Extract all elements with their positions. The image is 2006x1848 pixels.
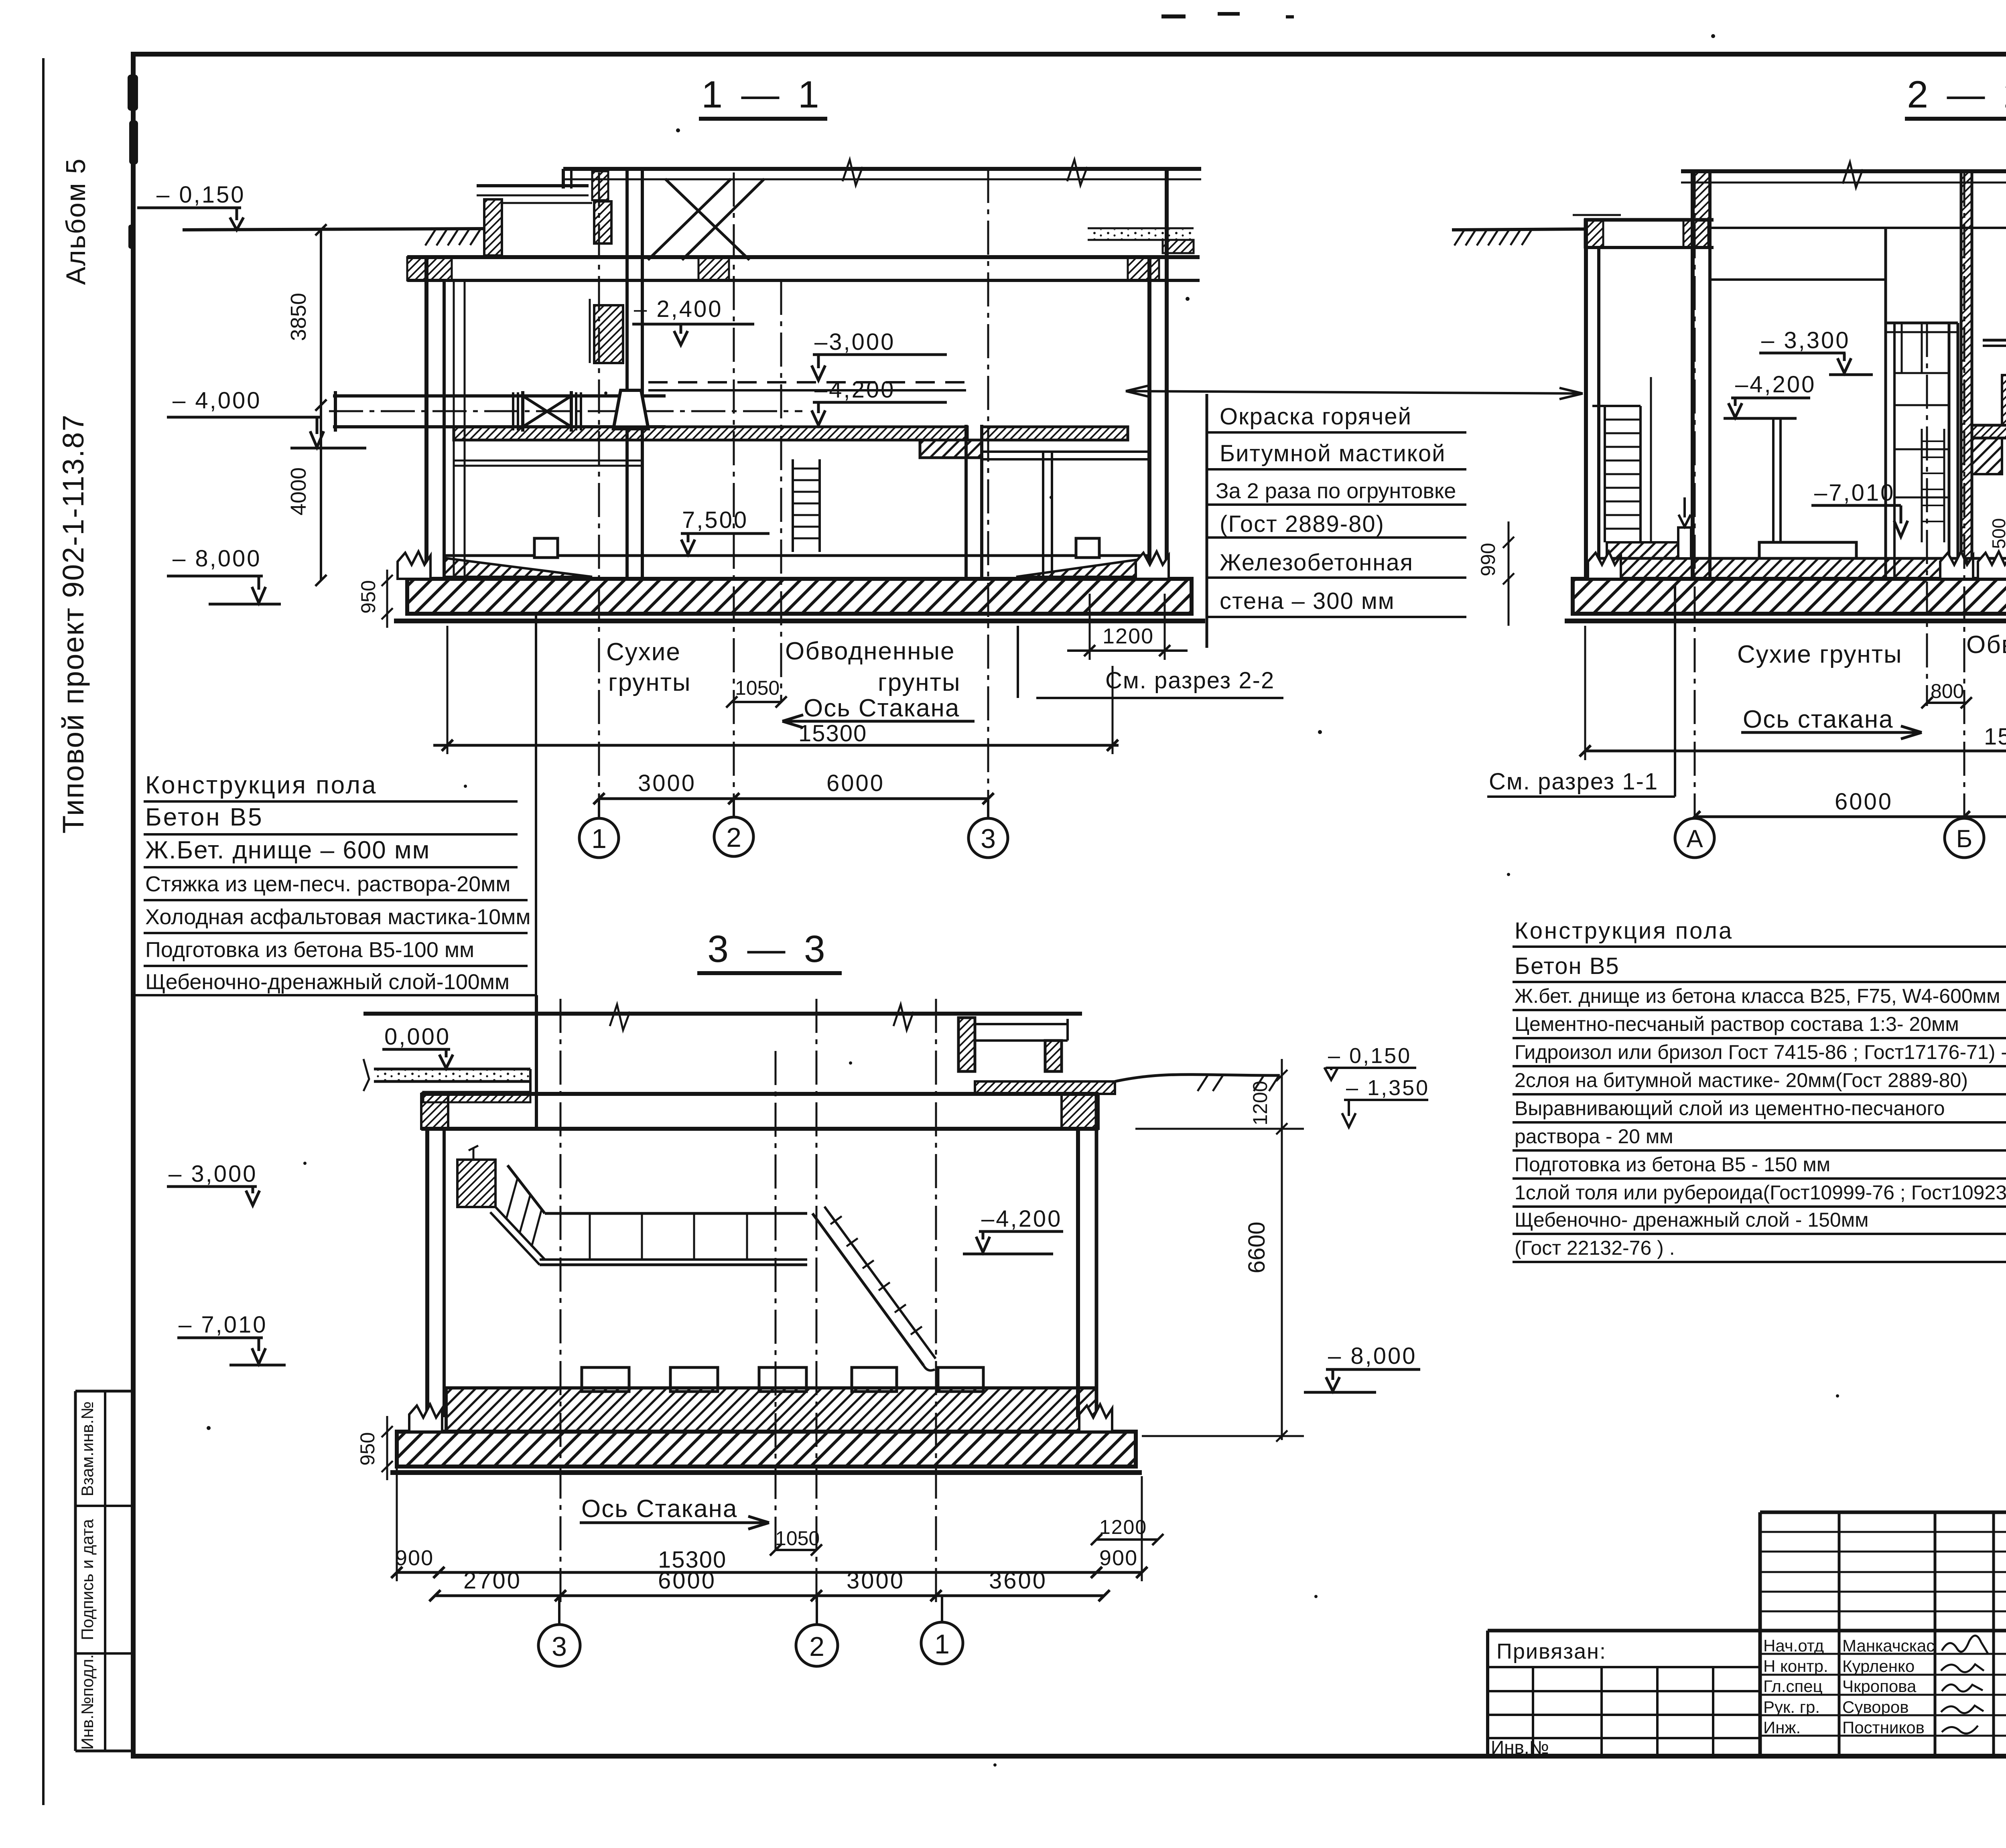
svg-text:См. разрез 1-1: См. разрез 1-1 <box>1489 769 1658 795</box>
left floor spec block border <box>536 995 538 1129</box>
right floor wedge <box>1016 558 1149 577</box>
svg-text:Ж.Бет. днище – 600 мм: Ж.Бет. днище – 600 мм <box>145 836 430 864</box>
svg-text:0,000: 0,000 <box>384 1024 451 1050</box>
annex roof slab <box>1584 218 1714 222</box>
svg-text:Гидроизол или бризол Гост 7415: Гидроизол или бризол Гост 7415-86 ; Гост… <box>1515 1041 2006 1063</box>
svg-text:3 — 3: 3 — 3 <box>707 928 829 970</box>
right roof deck hatch block <box>1163 240 1194 253</box>
svg-text:–4,200: –4,200 <box>814 377 895 403</box>
svg-text:500: 500 <box>1988 518 2006 549</box>
upper ladder hatched <box>457 1160 495 1207</box>
svg-text:– 0,150: – 0,150 <box>156 182 246 208</box>
shaft ladder <box>1921 429 1923 542</box>
svg-text:1 — 1: 1 — 1 <box>701 73 823 116</box>
dim 1200 right vertical <box>1281 1059 1283 1143</box>
svg-text:Подготовка из бетона В5-100 мм: Подготовка из бетона В5-100 мм <box>145 938 474 962</box>
walkway diagonal ties <box>506 1178 542 1247</box>
foundation foot mid-right <box>1978 552 2006 579</box>
pump hall floor slab <box>1972 425 2006 438</box>
grid bubble 2 <box>796 1625 838 1666</box>
svg-text:Привязан:: Привязан: <box>1496 1639 1606 1663</box>
floor plinth 3 <box>759 1367 806 1392</box>
svg-text:Конструкция пола: Конструкция пола <box>1515 918 1733 944</box>
suction bell <box>613 390 648 429</box>
foundation foot right <box>1136 552 1169 579</box>
base prep line <box>394 619 1205 623</box>
svg-text:6000: 6000 <box>1835 789 1893 815</box>
pit floor line <box>1599 557 2006 560</box>
svg-text:2слоя на битумной мастике- 20м: 2слоя на битумной мастике- 20мм(Гост 288… <box>1515 1069 1968 1091</box>
right lower deck lines <box>982 450 1149 453</box>
axis line 2 <box>733 172 735 818</box>
axis line Б <box>1963 172 1965 818</box>
roof hatch pier <box>592 171 608 200</box>
svg-text:Инв.№подл.: Инв.№подл. <box>78 1654 97 1750</box>
svg-text:– 4,000: – 4,000 <box>173 387 262 414</box>
pit floor hatched band <box>1607 558 1967 579</box>
axis line 2 <box>816 999 818 1603</box>
mid floor slab hatched <box>454 427 967 440</box>
svg-text:– 1,350: – 1,350 <box>1346 1076 1429 1100</box>
axis line A <box>1694 172 1696 818</box>
machine plinth on floor <box>1759 542 1856 558</box>
interior column <box>1042 452 1044 579</box>
svg-text:А: А <box>1686 825 1703 853</box>
full width band line <box>1488 1629 2006 1633</box>
parapet wall stub <box>562 169 565 189</box>
entrance handrails <box>975 1023 1068 1025</box>
svg-text:990: 990 <box>1477 543 1499 576</box>
svg-text:Обводненные: Обводненные <box>785 637 955 665</box>
roof slab line <box>1681 169 2006 173</box>
svg-text:1200: 1200 <box>1102 624 1154 648</box>
svg-text:900: 900 <box>1099 1546 1138 1570</box>
hall interior column <box>1772 418 1775 558</box>
svg-text:7,500: 7,500 <box>682 507 748 533</box>
svg-text:1: 1 <box>934 1629 950 1659</box>
annex canopy slab <box>477 184 589 187</box>
svg-text:– 8,000: – 8,000 <box>173 546 262 572</box>
extension line to text block <box>535 614 537 1129</box>
svg-text:Конструкция пола: Конструкция пола <box>145 771 377 799</box>
svg-text:1050: 1050 <box>775 1527 820 1550</box>
shaft left wall <box>1884 228 1887 579</box>
pit floor line <box>444 554 1149 557</box>
upper ladder (hatched) <box>594 305 623 363</box>
svg-text:Битумной мастикой: Битумной мастикой <box>1220 440 1446 467</box>
right main wall <box>1147 257 1151 579</box>
entrance box right pier <box>1045 1041 1062 1071</box>
left floor wedge <box>444 558 592 577</box>
svg-text:1: 1 <box>591 824 607 854</box>
annex roof hatch block left <box>1585 220 1603 247</box>
svg-text:раствора - 20 мм: раствора - 20 мм <box>1515 1125 1673 1148</box>
dim 950 vertical <box>386 570 388 628</box>
pit floor slab hatched <box>446 1388 1096 1432</box>
grid bubble 2 <box>714 817 753 856</box>
privyazan table frame <box>1486 1631 1489 1756</box>
entrance floor band <box>975 1081 1115 1094</box>
hall ceiling line <box>1710 227 2006 229</box>
pipe centerline <box>329 410 802 412</box>
svg-text:2: 2 <box>809 1631 824 1662</box>
svg-text:Инж.: Инж. <box>1763 1718 1801 1737</box>
annex canopy line <box>1573 214 1621 216</box>
right wall <box>1076 1129 1080 1417</box>
svg-text:См. разрез 2-2: См. разрез 2-2 <box>1105 667 1275 694</box>
glass axis line <box>780 281 782 702</box>
svg-text:Стяжка из цем-песч. раствора-2: Стяжка из цем-песч. раствора-20мм <box>145 872 510 896</box>
superstructure interior stair braces <box>648 179 731 260</box>
svg-text:– 8,000: – 8,000 <box>1328 1343 1417 1369</box>
ground line left <box>1452 229 1584 230</box>
signature scribble 4 <box>1941 1706 1984 1713</box>
svg-text:Постников: Постников <box>1842 1718 1925 1737</box>
foundation foot left <box>1588 552 1621 579</box>
walkway diagonal deck <box>495 1207 545 1260</box>
right roof deck with speckle <box>1088 227 1194 229</box>
svg-text:2 — 2: 2 — 2 <box>1907 73 2006 116</box>
svg-text:Бетон В5: Бетон В5 <box>1515 953 1620 979</box>
svg-text:– 0,150: – 0,150 <box>1328 1044 1411 1068</box>
pipe valve <box>521 391 524 432</box>
svg-text:– 3,300: – 3,300 <box>1761 327 1850 353</box>
svg-text:15300: 15300 <box>798 720 867 747</box>
see section 2-2 note <box>1017 626 1019 698</box>
svg-text:Инв.№: Инв.№ <box>1491 1737 1549 1758</box>
walkway deck <box>540 1258 807 1261</box>
glass axis line <box>775 1051 777 1552</box>
grid bubble 3 <box>538 1625 580 1666</box>
svg-text:900: 900 <box>395 1546 434 1570</box>
small post with arrow left <box>1678 527 1691 558</box>
outer left trim line <box>42 58 45 1805</box>
svg-text:Ось стакана: Ось стакана <box>1743 706 1894 733</box>
dim 6600 right vertical <box>1281 1143 1283 1440</box>
svg-text:Сухие: Сухие <box>606 638 681 666</box>
annex right pier (hatched) <box>594 201 611 243</box>
wall on axis A <box>1691 171 1695 579</box>
dim 2700 6000 3000 3600 <box>435 1594 1104 1597</box>
platform edge dashed <box>648 381 966 383</box>
cover slab hatch block mid <box>698 257 729 280</box>
svg-text:1050: 1050 <box>735 677 780 699</box>
svg-text:Щебеночно- дренажный слой - 15: Щебеночно- дренажный слой - 150мм <box>1515 1209 1868 1231</box>
dim 900 15300 900 <box>397 1571 1142 1574</box>
glass axis line <box>1926 323 1928 706</box>
svg-text:800: 800 <box>1931 680 1964 702</box>
left wall <box>425 1129 429 1417</box>
sidebar stamp table <box>75 1391 133 1751</box>
grid bubble Б <box>1945 818 1984 858</box>
ground line right <box>1115 1075 1280 1081</box>
svg-text:(Гост 2889-80): (Гост 2889-80) <box>1220 511 1385 537</box>
monorail beam <box>1983 339 2006 342</box>
signature scribble 2 <box>1941 1664 1984 1672</box>
svg-text:Суворов: Суворов <box>1842 1698 1909 1716</box>
signature table frame <box>1758 1512 1762 1756</box>
foundation slab <box>407 579 1192 614</box>
deck hatch band below <box>423 1092 530 1102</box>
svg-text:стена – 300 мм: стена – 300 мм <box>1220 588 1395 614</box>
svg-text:грунты: грунты <box>878 669 961 696</box>
interior wall axis2 <box>625 169 629 579</box>
svg-text:3000: 3000 <box>847 1568 905 1594</box>
center note block border <box>1206 394 1208 648</box>
svg-text:Цементно-песчаный раствор сост: Цементно-песчаный раствор состава 1:3- 2… <box>1515 1013 1959 1035</box>
cover slab hatch block right <box>1128 257 1159 280</box>
axis line 1 <box>935 999 937 1603</box>
shaft frame grid <box>1894 323 1949 497</box>
ground hatch ticks left <box>1454 229 1532 245</box>
floor niche left <box>534 538 558 558</box>
axis line 3 <box>987 169 989 818</box>
foundation foot mid-left <box>1940 552 1973 579</box>
roof slab line <box>363 1012 1082 1016</box>
svg-text:(Гост 22132-76 ) .: (Гост 22132-76 ) . <box>1515 1237 1675 1259</box>
svg-text:За 2 раза по огрунтовке: За 2 раза по огрунтовке <box>1216 479 1456 503</box>
grid bubble 3 <box>968 818 1008 858</box>
svg-text:1200: 1200 <box>1249 1081 1271 1125</box>
svg-text:–4,200: –4,200 <box>1735 371 1816 398</box>
signature scribble 3 <box>1942 1684 1983 1692</box>
entrance box left pier <box>958 1018 975 1071</box>
svg-text:Нач.отд: Нач.отд <box>1763 1636 1824 1655</box>
roof break mark <box>1843 162 1863 188</box>
wall on axis Б (hatched) <box>1961 171 1972 579</box>
left dim line vertical <box>320 230 322 580</box>
ground hatch ticks right <box>1198 1075 1279 1091</box>
svg-text:3600: 3600 <box>989 1568 1047 1594</box>
svg-text:Холодная асфальтовая мастика-1: Холодная асфальтовая мастика-10мм <box>145 905 530 929</box>
left deck slab with speckle <box>374 1068 530 1071</box>
base prep line <box>1565 619 2006 623</box>
cross reference arrow between sections <box>1126 391 1583 394</box>
svg-text:Подпись и дата: Подпись и дата <box>78 1519 97 1640</box>
scan blobs on left frame border <box>128 75 138 111</box>
top slab hatch block right <box>1062 1094 1098 1129</box>
svg-text:–3,000: –3,000 <box>814 329 895 355</box>
mid floor step block <box>920 440 982 458</box>
roof break mark <box>1067 160 1087 185</box>
svg-text:1200: 1200 <box>1099 1516 1147 1538</box>
annex left wall (hatched) <box>484 199 502 256</box>
cover slab top line <box>407 255 1200 259</box>
svg-text:Бетон В5: Бетон В5 <box>145 803 264 831</box>
walkway diagonal rail <box>508 1165 545 1213</box>
annex roof hatch block right <box>1683 220 1708 247</box>
floor niche right <box>1076 538 1099 558</box>
wall A hatch top <box>1693 171 1710 247</box>
svg-text:Окраска горячей: Окраска горячей <box>1220 404 1412 430</box>
svg-text:950: 950 <box>356 1432 379 1465</box>
svg-text:Подготовка из бетона В5 - 150: Подготовка из бетона В5 - 150 мм <box>1515 1153 1830 1176</box>
svg-text:–7,010: –7,010 <box>1814 480 1895 506</box>
dim 950 left vertical <box>386 1416 388 1480</box>
svg-text:2700: 2700 <box>463 1568 522 1594</box>
floor plinth 1 <box>582 1367 629 1392</box>
svg-text:Обводненные: Обводненные <box>1966 631 2006 659</box>
ground line left <box>183 229 484 230</box>
interior wall under mid floor <box>964 425 968 579</box>
svg-text:Сухие грунты: Сухие грунты <box>1737 641 1902 668</box>
axis line 1 <box>598 172 600 818</box>
svg-text:Чкропова: Чкропова <box>1842 1677 1917 1696</box>
signature scribble 1 <box>1942 1635 1988 1654</box>
svg-text:3850: 3850 <box>286 293 311 341</box>
left main wall <box>424 257 428 579</box>
foundation foot right <box>1079 1404 1112 1432</box>
svg-text:3: 3 <box>981 824 996 854</box>
annex ladder <box>1604 406 1606 542</box>
svg-text:2: 2 <box>726 822 741 853</box>
top slab hatch block left <box>421 1094 448 1129</box>
svg-text:Типовой проект 902-1-113.87: Типовой проект 902-1-113.87 <box>57 414 90 834</box>
foundation slab <box>1573 579 2006 614</box>
floor plinth 2 <box>670 1367 718 1392</box>
svg-text:4000: 4000 <box>286 467 311 515</box>
walkway posts <box>590 1213 747 1260</box>
svg-text:6000: 6000 <box>658 1568 716 1594</box>
shaft right wall <box>1948 323 1951 579</box>
svg-text:Н контр.: Н контр. <box>1763 1657 1828 1676</box>
roof slab line <box>563 167 1201 171</box>
left wall liner <box>453 280 455 579</box>
hall floor line <box>1710 278 1886 281</box>
cover slab bottom line <box>407 279 1200 282</box>
axis line 3 <box>560 999 562 1603</box>
foundation foot left <box>409 1404 442 1432</box>
svg-text:3: 3 <box>552 1631 567 1662</box>
svg-text:6000: 6000 <box>826 770 885 796</box>
dim 990 vertical <box>1508 521 1510 626</box>
left outer wall <box>1584 220 1588 579</box>
grid bubble А <box>1675 818 1714 858</box>
svg-text:Альбом 5: Альбом 5 <box>61 158 91 285</box>
under floor pier left <box>1972 438 2002 474</box>
svg-text:Б: Б <box>1956 825 1973 853</box>
svg-text:Курленко: Курленко <box>1842 1657 1915 1676</box>
svg-text:Гл.спец: Гл.спец <box>1763 1677 1823 1696</box>
pipe flanges <box>512 392 514 430</box>
grid bubble 1 <box>579 818 619 858</box>
grid bubble 1 <box>921 1622 963 1664</box>
left room floor lines <box>454 460 642 462</box>
cover slab hatch block left <box>407 257 452 280</box>
svg-text:Взам.инв.№: Взам.инв.№ <box>78 1402 97 1497</box>
roof break mark <box>843 160 863 185</box>
svg-text:– 7,010: – 7,010 <box>179 1312 268 1338</box>
ground hatch ticks <box>425 229 480 245</box>
svg-text:6600: 6600 <box>1244 1221 1270 1273</box>
base prep line <box>390 1470 1142 1475</box>
annex floor hatched <box>1607 542 1694 558</box>
signature scribble 5 <box>1942 1726 1978 1734</box>
svg-text:Ось Стакана: Ось Стакана <box>581 1495 737 1523</box>
roof break mark <box>893 1004 914 1030</box>
svg-text:950: 950 <box>357 580 380 613</box>
svg-text:Железобетонная: Железобетонная <box>1220 550 1413 576</box>
dim 1200 right <box>1089 594 1091 660</box>
svg-text:Ось Стакана: Ось Стакана <box>804 694 960 722</box>
svg-text:3000: 3000 <box>638 770 696 796</box>
svg-text:грунты: грунты <box>608 669 691 696</box>
svg-text:Ж.бет. днище из бетона класса: Ж.бет. днище из бетона класса В25, F75, … <box>1515 985 2000 1007</box>
central ladder <box>792 459 794 552</box>
svg-text:Рук. гр.: Рук. гр. <box>1763 1698 1820 1716</box>
mid floor right part <box>982 427 1128 440</box>
svg-text:–4,200: –4,200 <box>981 1206 1062 1232</box>
foundation slab <box>397 1432 1136 1467</box>
svg-text:Выравнивающий слой из цементно: Выравнивающий слой из цементно-песчаного <box>1515 1097 1945 1120</box>
svg-text:Манкачскас: Манкачскас <box>1842 1636 1935 1655</box>
svg-text:Щебеночно-дренажный слой-100мм: Щебеночно-дренажный слой-100мм <box>145 970 510 994</box>
pump pedestal 1 <box>2002 375 2006 425</box>
walkway handrail <box>545 1212 807 1215</box>
top scan artifact dashes <box>1161 14 1186 18</box>
inlet pipe <box>333 394 666 398</box>
dim 3000 6000 <box>599 797 988 800</box>
svg-text:1слой толя или рубероида(Гост1: 1слой толя или рубероида(Гост10999-76 ; … <box>1515 1181 2006 1204</box>
annex inner ceiling <box>502 202 592 204</box>
main top slab <box>421 1092 1098 1096</box>
svg-text:– 2,400: – 2,400 <box>634 296 723 322</box>
shaft top beams <box>1886 322 1958 325</box>
svg-text:– 3,000: – 3,000 <box>169 1161 258 1187</box>
svg-text:15300: 15300 <box>1984 724 2006 750</box>
dim 6000 6000 <box>1695 815 2006 818</box>
stair flight down <box>812 1213 924 1365</box>
roof break mark <box>610 1004 630 1030</box>
floor plinth 5 <box>938 1367 983 1392</box>
foundation foot left <box>398 552 430 579</box>
floor plinth 4 <box>852 1367 897 1392</box>
